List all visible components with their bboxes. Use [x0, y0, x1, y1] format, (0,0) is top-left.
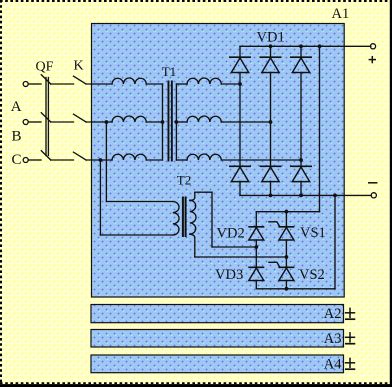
svg-text:A3: A3 [324, 331, 342, 347]
svg-text:C: C [12, 152, 22, 168]
svg-text:VD2: VD2 [217, 226, 245, 242]
svg-text:B: B [12, 128, 22, 144]
svg-text:VD1: VD1 [257, 29, 285, 45]
svg-text:A4: A4 [324, 357, 342, 373]
svg-text:A: A [11, 99, 22, 115]
svg-text:A2: A2 [324, 306, 342, 322]
svg-text:T2: T2 [177, 173, 191, 188]
svg-text:VS2: VS2 [299, 267, 325, 283]
svg-text:T1: T1 [162, 64, 176, 79]
svg-text:A1: A1 [332, 6, 350, 22]
svg-text:VD3: VD3 [215, 267, 243, 283]
svg-text:VS1: VS1 [300, 225, 326, 241]
svg-text:K: K [74, 59, 84, 74]
svg-text:QF: QF [36, 60, 54, 75]
